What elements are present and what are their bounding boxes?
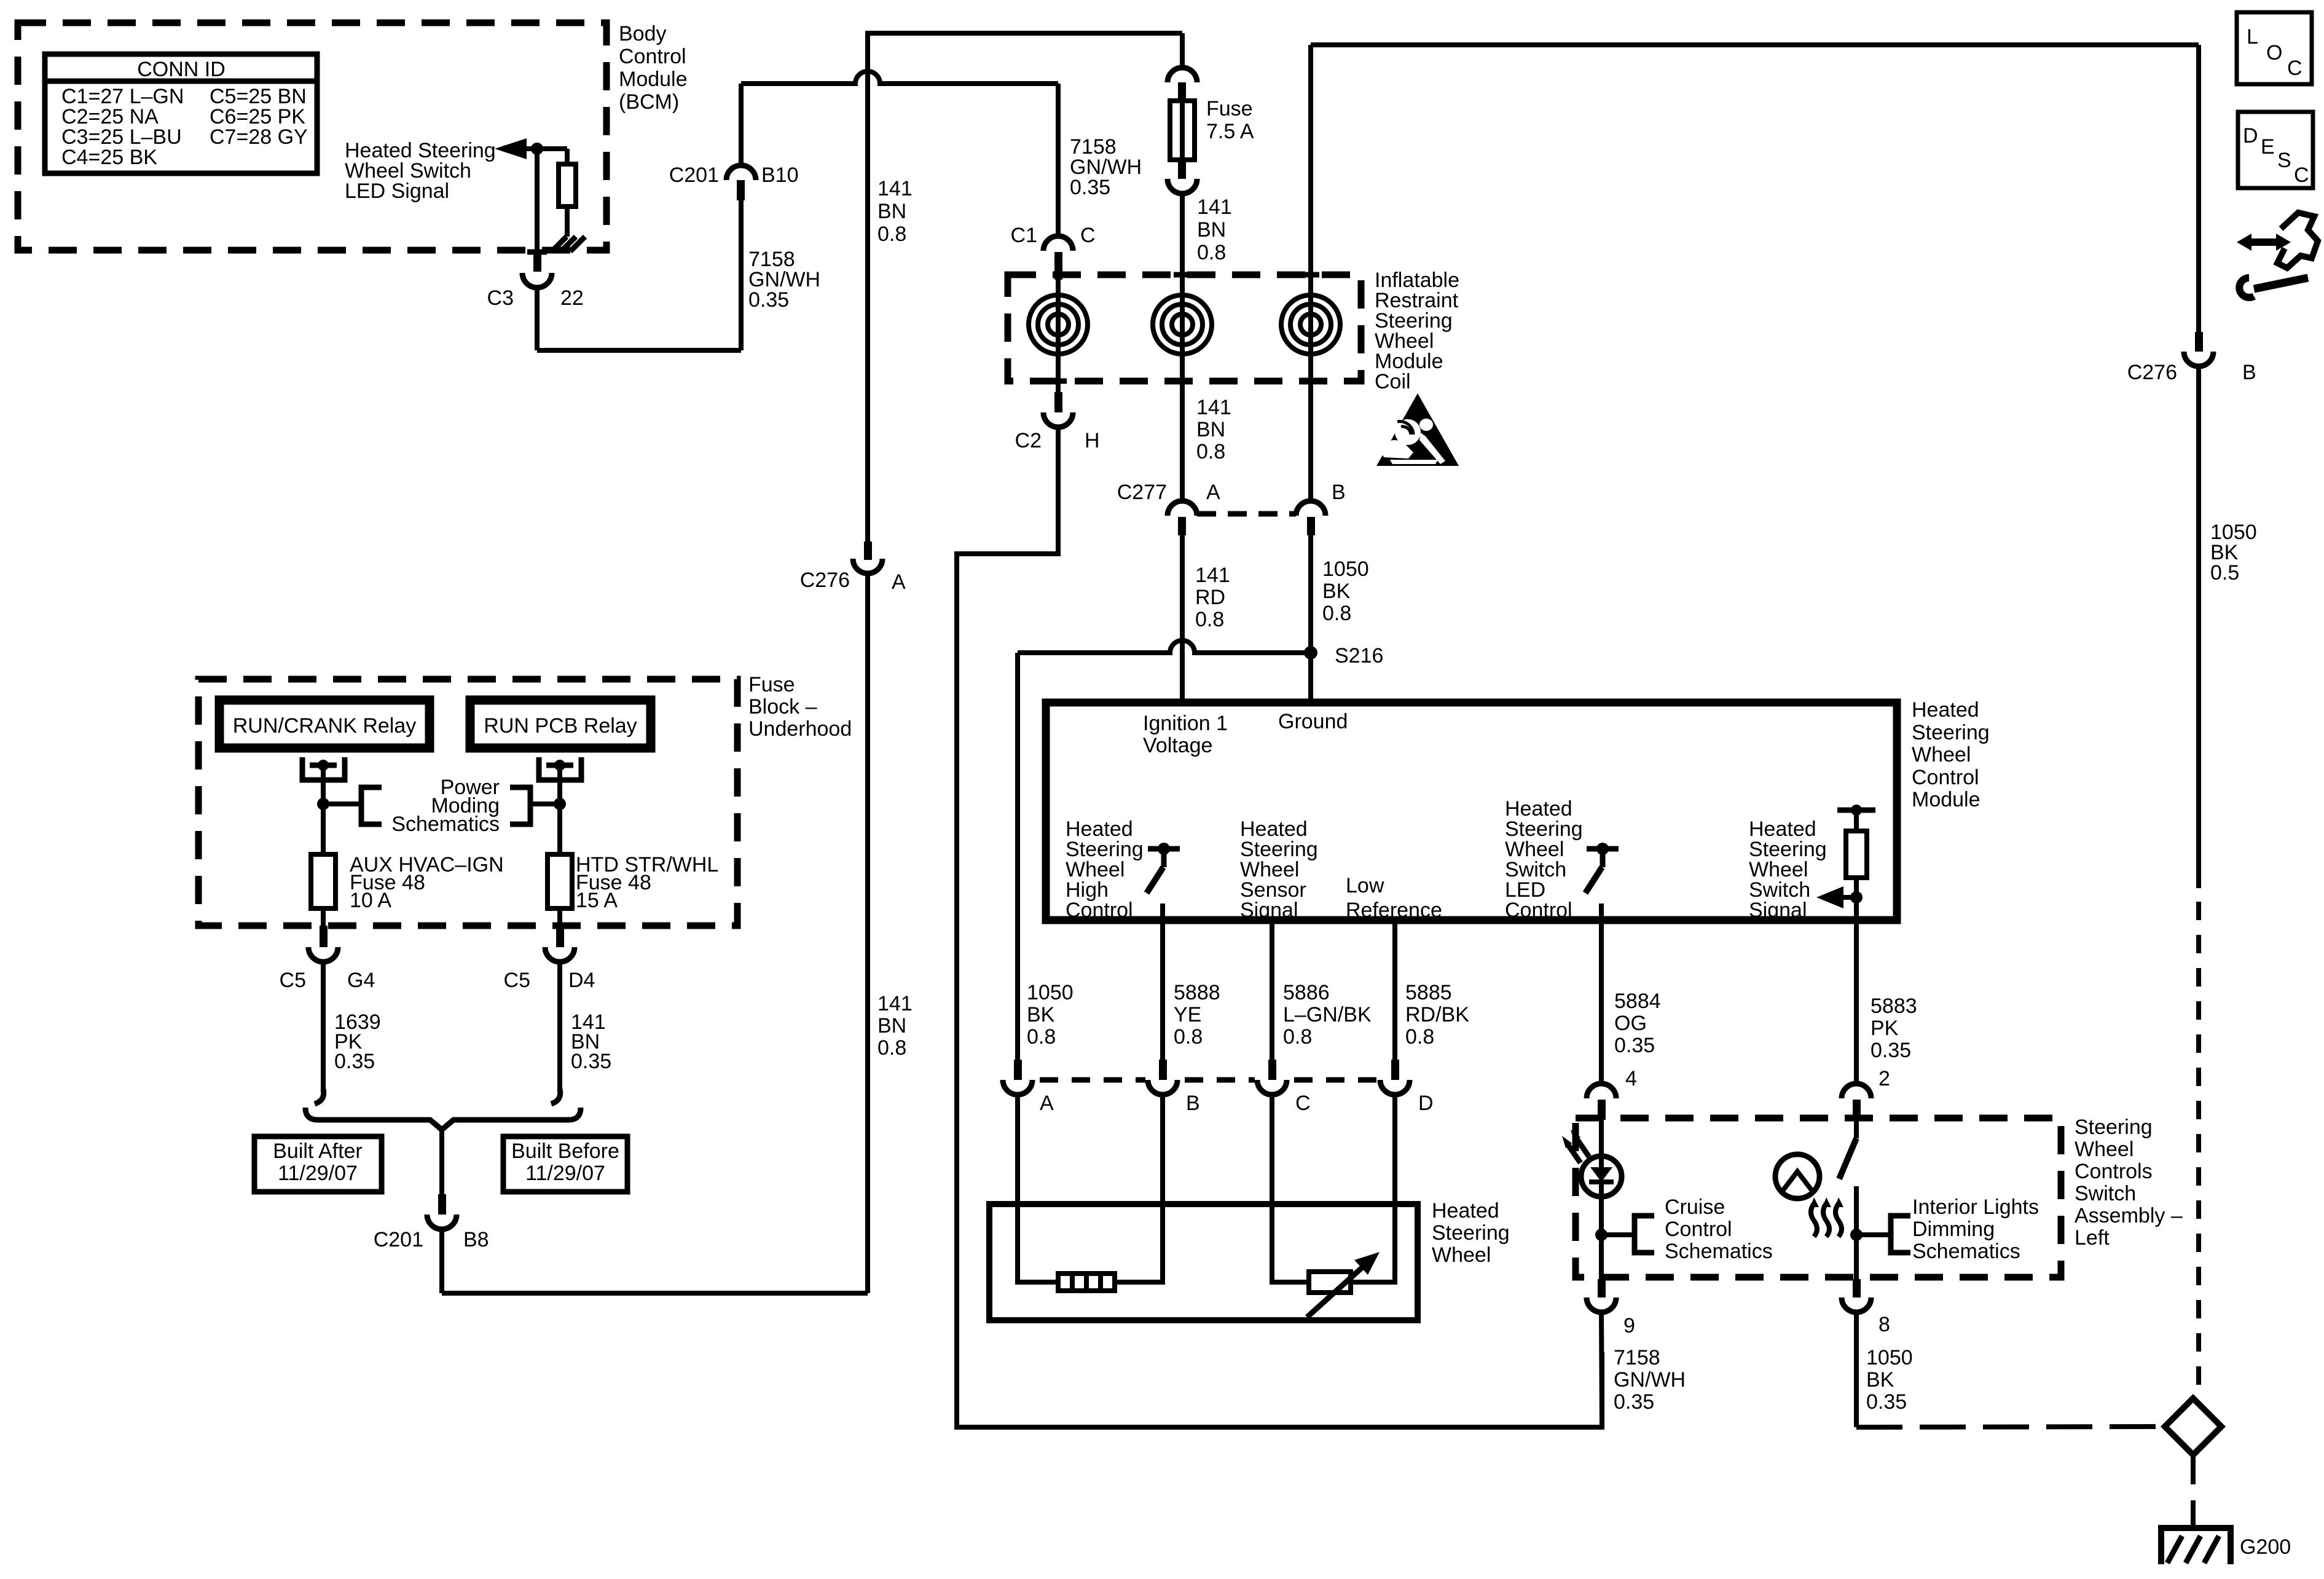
svg-text:H: H <box>1085 429 1100 452</box>
svg-text:0.35: 0.35 <box>334 1050 375 1073</box>
svg-text:7158: 7158 <box>1614 1346 1660 1369</box>
svg-text:BN: BN <box>1197 218 1226 242</box>
svg-text:C: C <box>1080 224 1096 247</box>
svg-text:Control: Control <box>1665 1218 1732 1241</box>
svg-text:Schematics: Schematics <box>391 813 500 836</box>
svg-text:22: 22 <box>560 286 584 310</box>
svg-text:Underhood: Underhood <box>748 717 852 741</box>
svg-text:B: B <box>1186 1092 1200 1115</box>
svg-text:0.8: 0.8 <box>1283 1025 1312 1049</box>
svg-text:BK: BK <box>1322 580 1351 603</box>
svg-text:Interior Lights: Interior Lights <box>1912 1195 2039 1219</box>
svg-text:Heated: Heated <box>1432 1199 1499 1223</box>
svg-text:5888: 5888 <box>1174 981 1220 1004</box>
svg-text:B: B <box>2242 361 2256 384</box>
svg-text:PK: PK <box>1871 1017 1899 1040</box>
svg-text:Controls: Controls <box>2075 1160 2153 1183</box>
svg-text:A: A <box>1206 481 1220 504</box>
svg-text:C7=28 GY: C7=28 GY <box>210 125 308 149</box>
svg-text:Dimming: Dimming <box>1912 1218 1995 1241</box>
svg-text:L–GN/BK: L–GN/BK <box>1283 1003 1372 1026</box>
svg-text:Signal: Signal <box>1749 899 1807 922</box>
svg-text:D4: D4 <box>568 969 595 992</box>
svg-text:RUN PCB Relay: RUN PCB Relay <box>484 714 637 738</box>
svg-text:(BCM): (BCM) <box>619 90 679 114</box>
svg-text:11/29/07: 11/29/07 <box>278 1162 358 1185</box>
svg-text:1050: 1050 <box>1866 1346 1913 1369</box>
svg-text:A: A <box>892 570 906 594</box>
svg-text:0.35: 0.35 <box>748 288 789 312</box>
svg-text:C201: C201 <box>669 163 719 187</box>
svg-text:0.8: 0.8 <box>1195 608 1224 631</box>
svg-text:Reference: Reference <box>1346 899 1442 922</box>
svg-text:C1: C1 <box>1011 224 1037 247</box>
svg-text:Coil: Coil <box>1375 370 1411 393</box>
svg-text:Steering: Steering <box>1432 1221 1510 1245</box>
svg-text:Steering: Steering <box>1912 721 1990 744</box>
svg-text:9: 9 <box>1623 1314 1635 1337</box>
svg-text:B: B <box>1332 481 1346 504</box>
svg-text:Low: Low <box>1346 874 1384 897</box>
svg-text:C276: C276 <box>800 569 850 592</box>
svg-text:141: 141 <box>1197 195 1232 219</box>
svg-text:C4=25 BK: C4=25 BK <box>61 146 157 169</box>
svg-text:BK: BK <box>1027 1003 1055 1026</box>
svg-text:RD: RD <box>1195 586 1225 609</box>
svg-text:E: E <box>2261 135 2275 159</box>
svg-text:C5: C5 <box>280 969 306 992</box>
svg-text:Ground: Ground <box>1278 710 1348 733</box>
svg-text:Built Before: Built Before <box>511 1140 619 1163</box>
svg-text:5883: 5883 <box>1871 994 1917 1018</box>
svg-text:0.8: 0.8 <box>877 1036 906 1060</box>
svg-text:10 A: 10 A <box>350 889 391 912</box>
svg-text:4: 4 <box>1625 1067 1637 1090</box>
svg-text:G200: G200 <box>2240 1535 2291 1559</box>
svg-text:Wheel: Wheel <box>1432 1243 1491 1267</box>
svg-text:1050: 1050 <box>1027 981 1074 1004</box>
svg-text:2: 2 <box>1878 1067 1890 1090</box>
svg-text:A: A <box>1040 1092 1054 1115</box>
svg-text:Control: Control <box>1505 899 1572 922</box>
svg-text:0.35: 0.35 <box>1070 176 1110 199</box>
svg-text:Ignition 1: Ignition 1 <box>1143 712 1228 735</box>
svg-text:1050: 1050 <box>1322 557 1369 581</box>
svg-text:C: C <box>2287 57 2302 80</box>
svg-text:B10: B10 <box>761 163 799 187</box>
svg-text:D: D <box>1418 1092 1434 1115</box>
svg-text:Block –: Block – <box>748 695 817 719</box>
svg-text:8: 8 <box>1878 1313 1890 1336</box>
svg-text:C: C <box>1295 1092 1311 1115</box>
svg-text:Wheel: Wheel <box>1912 743 1971 766</box>
svg-text:C: C <box>2294 163 2309 187</box>
svg-text:Steering: Steering <box>2075 1116 2153 1139</box>
svg-text:RUN/CRANK Relay: RUN/CRANK Relay <box>233 714 417 738</box>
svg-text:11/29/07: 11/29/07 <box>525 1162 605 1185</box>
svg-text:CONN ID: CONN ID <box>137 58 226 81</box>
svg-text:BK: BK <box>1866 1368 1894 1392</box>
svg-text:C276: C276 <box>2127 361 2177 384</box>
svg-text:Schematics: Schematics <box>1912 1240 2020 1263</box>
svg-text:Left: Left <box>2075 1226 2110 1250</box>
svg-text:5886: 5886 <box>1283 981 1330 1004</box>
svg-text:C2: C2 <box>1015 429 1042 452</box>
svg-text:C277: C277 <box>1117 481 1167 504</box>
svg-text:OG: OG <box>1614 1012 1647 1035</box>
svg-text:0.8: 0.8 <box>1196 440 1225 463</box>
svg-text:GN/WH: GN/WH <box>1614 1368 1686 1392</box>
svg-text:BN: BN <box>877 200 906 223</box>
svg-text:Module: Module <box>619 68 688 91</box>
svg-text:0.8: 0.8 <box>1027 1025 1056 1049</box>
svg-text:C3: C3 <box>487 286 514 310</box>
svg-text:Control: Control <box>1912 766 1979 789</box>
svg-text:5885: 5885 <box>1405 981 1452 1004</box>
svg-text:0.8: 0.8 <box>1174 1025 1203 1049</box>
svg-text:0.35: 0.35 <box>571 1050 611 1073</box>
svg-text:0.35: 0.35 <box>1614 1034 1655 1057</box>
svg-text:15 A: 15 A <box>576 889 618 912</box>
svg-text:Cruise: Cruise <box>1665 1195 1725 1219</box>
svg-text:Voltage: Voltage <box>1143 734 1212 757</box>
svg-text:YE: YE <box>1174 1003 1201 1026</box>
svg-text:BN: BN <box>1196 418 1225 441</box>
svg-text:Fuse: Fuse <box>748 673 795 696</box>
svg-text:Body: Body <box>619 22 667 45</box>
svg-text:LED Signal: LED Signal <box>345 179 449 203</box>
svg-text:Fuse: Fuse <box>1206 97 1253 120</box>
svg-text:C5: C5 <box>504 969 530 992</box>
svg-text:L: L <box>2247 25 2258 49</box>
svg-text:Control: Control <box>1066 899 1133 922</box>
svg-text:Switch: Switch <box>2075 1182 2136 1205</box>
svg-text:C201: C201 <box>374 1228 423 1251</box>
svg-text:7.5 A: 7.5 A <box>1206 120 1254 143</box>
svg-text:141: 141 <box>1195 564 1230 587</box>
svg-text:5884: 5884 <box>1614 990 1661 1013</box>
svg-text:0.5: 0.5 <box>2210 561 2239 585</box>
svg-text:BN: BN <box>877 1014 906 1038</box>
svg-text:Module: Module <box>1912 788 1981 811</box>
svg-text:Wheel: Wheel <box>2075 1138 2134 1161</box>
svg-text:S216: S216 <box>1335 644 1383 667</box>
svg-text:0.8: 0.8 <box>877 222 906 246</box>
svg-text:Heated: Heated <box>1912 698 1979 722</box>
svg-text:O: O <box>2266 41 2282 65</box>
svg-text:G4: G4 <box>347 969 375 992</box>
svg-text:RD/BK: RD/BK <box>1405 1003 1469 1026</box>
svg-text:B8: B8 <box>463 1228 489 1251</box>
svg-text:0.35: 0.35 <box>1871 1039 1911 1062</box>
svg-text:0.35: 0.35 <box>1866 1390 1907 1414</box>
svg-text:Control: Control <box>619 45 686 68</box>
svg-text:0.35: 0.35 <box>1614 1390 1654 1414</box>
svg-text:0.8: 0.8 <box>1322 602 1351 625</box>
svg-text:Built After: Built After <box>273 1140 363 1163</box>
svg-text:Schematics: Schematics <box>1665 1240 1773 1263</box>
svg-text:S: S <box>2277 149 2291 172</box>
svg-text:0.8: 0.8 <box>1405 1025 1434 1049</box>
svg-text:141: 141 <box>1196 396 1231 419</box>
svg-text:Signal: Signal <box>1240 899 1298 922</box>
svg-text:141: 141 <box>877 177 913 200</box>
svg-text:141: 141 <box>877 992 913 1015</box>
svg-text:Assembly –: Assembly – <box>2075 1204 2183 1227</box>
svg-text:0.8: 0.8 <box>1197 241 1226 264</box>
svg-text:D: D <box>2243 124 2258 148</box>
